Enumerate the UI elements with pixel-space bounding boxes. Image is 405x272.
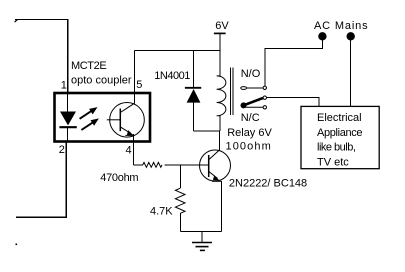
svg-text:N/C: N/C <box>241 112 260 124</box>
wire: AC mains right to appliance <box>350 39 352 106</box>
svg-text:4.7K: 4.7K <box>150 205 173 217</box>
svg-text:6V: 6V <box>215 20 229 32</box>
wire: common contact to appliance <box>267 98 319 107</box>
wire: pin 5 up to top rail <box>133 51 135 104</box>
svg-text:like bulb,: like bulb, <box>317 142 356 154</box>
svg-text:4: 4 <box>126 145 132 157</box>
svg-text:N/O: N/O <box>241 68 261 80</box>
6V supply symbol <box>214 32 226 34</box>
resistor R2 4.7K <box>179 165 181 188</box>
relay coil RL1 <box>217 76 226 116</box>
svg-text:opto coupler: opto coupler <box>71 74 132 86</box>
svg-text:MCT2E: MCT2E <box>71 60 106 72</box>
svg-text:TV etc: TV etc <box>317 156 349 168</box>
light emission arrows <box>80 107 99 130</box>
wire: bottom emitter rail <box>180 230 221 232</box>
opto coupler U1 package box <box>55 93 151 142</box>
ground symbol <box>201 231 203 242</box>
wire: pin 4 down to base resistor <box>132 134 134 165</box>
relay core lines <box>230 68 232 116</box>
svg-text:2: 2 <box>59 144 65 156</box>
AC mains terminal dot left <box>319 33 326 40</box>
svg-text:1: 1 <box>61 80 67 92</box>
svg-text:Appliance: Appliance <box>317 127 362 139</box>
relay contact N/O terminal <box>263 86 266 89</box>
relay contact N/O fixed point <box>241 87 247 90</box>
tick at input wire end <box>15 20 18 23</box>
relay contact N/C terminal <box>263 106 266 109</box>
svg-text:1N4001: 1N4001 <box>154 70 190 82</box>
svg-text:Electrical: Electrical <box>317 112 362 124</box>
wire: 6V down to relay coil <box>219 34 221 77</box>
svg-text:AC Mains: AC Mains <box>314 20 368 32</box>
svg-text:2N2222/ BC148: 2N2222/ BC148 <box>229 177 307 189</box>
AC mains terminal dot right <box>347 33 354 40</box>
wire: emitter down <box>220 181 222 231</box>
appliance box <box>301 106 379 168</box>
svg-text:100ohm: 100ohm <box>226 141 272 153</box>
wire: top rail <box>134 50 220 52</box>
relay common terminal <box>263 96 266 99</box>
resistor R1 470ohm <box>133 164 142 166</box>
relay armature <box>244 98 264 105</box>
transistor Q1 <box>200 150 231 181</box>
stray dot bottom-left <box>16 244 18 246</box>
wire: coil bottom to collector <box>194 130 220 132</box>
LED D2 inside opto coupler <box>67 93 69 112</box>
wire: LED anode input top-left <box>15 20 68 92</box>
svg-text:5: 5 <box>136 79 142 91</box>
relay contact N/C fixed point <box>245 106 263 108</box>
diode D1 1N4001 <box>193 51 195 88</box>
phototransistor inside opto coupler <box>110 103 145 138</box>
svg-text:Relay 6V: Relay 6V <box>227 127 272 139</box>
wire: AC mains left to N/O terminal <box>265 39 322 86</box>
wire: pin 2 to bottom-left terminal <box>16 143 66 218</box>
svg-text:470ohm: 470ohm <box>100 172 138 184</box>
